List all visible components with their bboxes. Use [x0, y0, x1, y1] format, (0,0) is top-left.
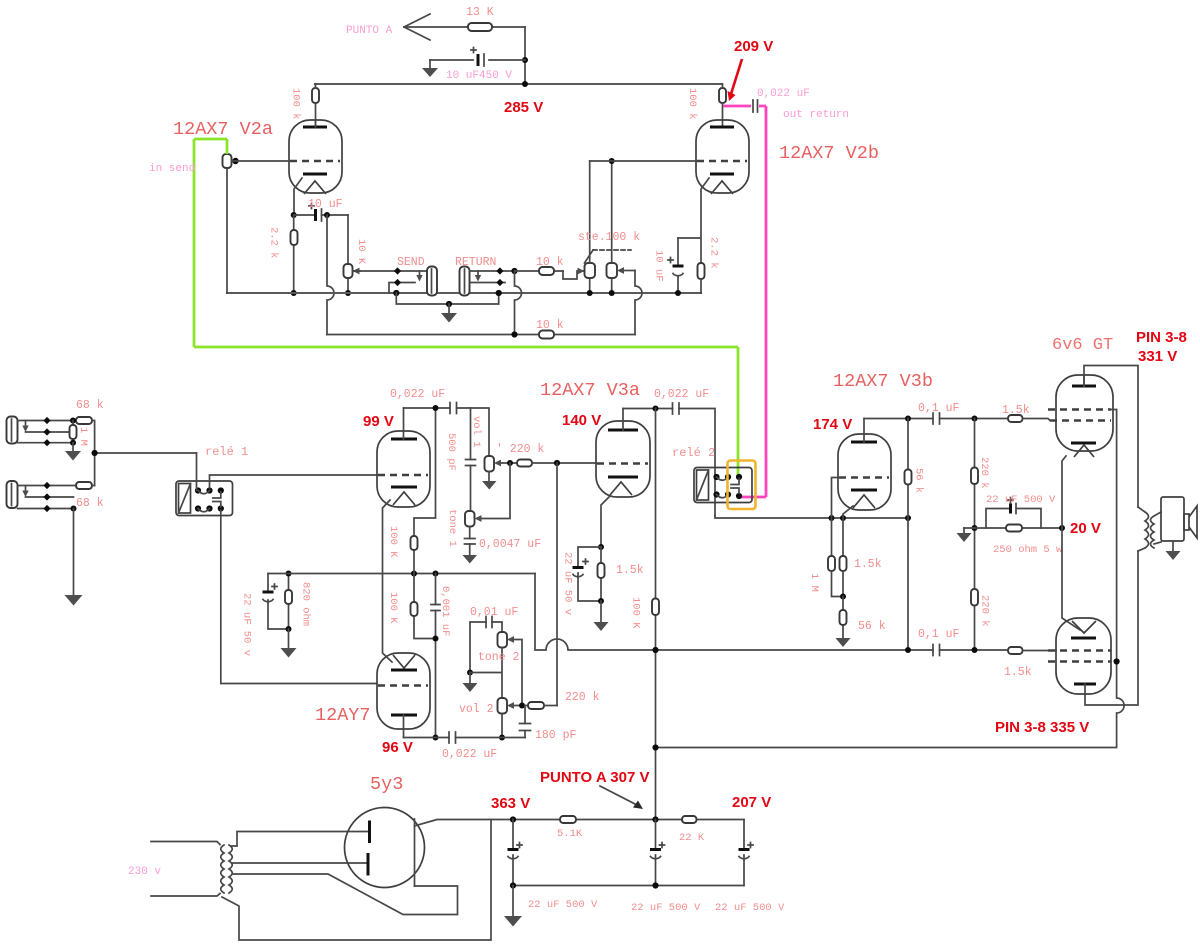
resistor 100K lower: [387, 592, 418, 624]
svg-text:22 uF 500 V: 22 uF 500 V: [528, 899, 598, 911]
wire with hop over cathode rail: [327, 215, 334, 335]
jack input 1: [7, 417, 77, 447]
node: [840, 594, 846, 600]
node 209V label with arrow: [728, 38, 774, 101]
transformer OT secondary: [1151, 512, 1162, 548]
svg-text:209 V: 209 V: [734, 38, 773, 55]
resistor 68k input1: [76, 399, 104, 424]
node: [433, 636, 439, 642]
resistor 250 ohm 5w: [993, 525, 1063, 557]
resistor 5.1K: [557, 816, 583, 840]
resistor 22K: [679, 816, 705, 844]
svg-text:56 k: 56 k: [913, 468, 925, 493]
svg-text:10 K: 10 K: [355, 239, 367, 265]
svg-text:1.5k: 1.5k: [1002, 404, 1030, 417]
svg-text:1.5k: 1.5k: [616, 564, 644, 577]
svg-text:13 K: 13 K: [466, 6, 494, 19]
tube 12AX7 V3a: [540, 380, 650, 497]
svg-text:12AX7 V3a: 12AX7 V3a: [540, 380, 640, 401]
svg-text:22 uF 500 V: 22 uF 500 V: [715, 902, 785, 914]
speaker: [1161, 497, 1197, 560]
svg-text:out return: out return: [783, 109, 849, 121]
resistor 220k ch2 mix: [528, 691, 600, 709]
node punto A: [652, 816, 658, 822]
svg-text:0,01 uF: 0,01 uF: [470, 606, 518, 619]
capacitor 10uF V2b cathode: [653, 238, 684, 293]
node: [411, 571, 417, 577]
tube 12AX7 V3b: [813, 371, 933, 510]
ground input2: [65, 509, 83, 606]
svg-text:5.1K: 5.1K: [557, 828, 583, 840]
svg-text:0,001 uF: 0,001 uF: [439, 586, 451, 636]
potentiometer 10k send level: [344, 215, 368, 293]
resistor 68k input2: [76, 482, 104, 510]
node PUNTO A (arrow to Punto A): [346, 14, 430, 40]
resistor 56k feedback: [905, 419, 925, 651]
ground: [957, 528, 972, 542]
wire cathode V1a: [383, 500, 393, 662]
svg-text:PUNTO A: PUNTO A: [346, 25, 393, 37]
ground main: [504, 886, 522, 927]
tube 6V6 upper: [1048, 336, 1113, 457]
capacitor 0.022uF out coupling: [753, 88, 849, 121]
node return tip junction: [511, 268, 517, 274]
node: [507, 460, 513, 466]
resistor 1.5k V3b: [840, 556, 882, 597]
svg-text:10 uF450 V: 10 uF450 V: [446, 70, 512, 82]
capacitor 22uF 500V no2: [631, 820, 701, 915]
wire relay1 in: [196, 453, 198, 490]
svg-text:207 V: 207 V: [732, 794, 771, 811]
svg-text:363 V: 363 V: [491, 795, 530, 812]
potentiometer tone1: [446, 463, 510, 547]
svg-text:2.2 k: 2.2 k: [268, 227, 280, 259]
svg-text:0,022 uF: 0,022 uF: [757, 88, 810, 100]
resistor 10k mix: [536, 319, 564, 339]
resistor 220k lower bias: [971, 528, 991, 650]
svg-text:100 K: 100 K: [387, 592, 399, 624]
wire: [524, 27, 526, 84]
transformer OT primary: [1138, 507, 1149, 551]
node: [652, 647, 658, 653]
node: [972, 525, 978, 531]
ground: [463, 673, 478, 693]
svg-text:0,1 uF: 0,1 uF: [918, 402, 960, 415]
tube 12AX7 V2a: [173, 119, 342, 194]
wire upper cathode: [1062, 456, 1066, 528]
svg-text:230 v: 230 v: [128, 866, 161, 878]
node: [905, 647, 911, 653]
svg-text:10 k: 10 k: [536, 256, 564, 269]
wire grid V2b: [590, 160, 697, 162]
node: [510, 882, 516, 888]
svg-text:tone 1: tone 1: [446, 509, 458, 547]
svg-text:68 k: 68 k: [76, 399, 104, 412]
node: [70, 440, 76, 446]
wire relay1 out to V1a grid: [210, 475, 378, 488]
node: [92, 450, 98, 456]
node: [511, 331, 517, 337]
capacitor 180pF: [520, 706, 577, 743]
wire wiper riser with hop: [635, 271, 642, 335]
svg-text:220 k: 220 k: [979, 595, 991, 627]
capacitor 0.1uF lower: [918, 628, 1008, 656]
svg-text:285 V: 285 V: [504, 99, 543, 116]
wire relay1 out to V1b grid: [221, 510, 377, 684]
wire HV CT loop: [222, 820, 491, 941]
resistor 1.5k upper grid: [1002, 404, 1056, 422]
resistor 220k ch1 mix: [496, 443, 544, 467]
svg-text:6v6 GT: 6v6 GT: [1052, 336, 1113, 355]
svg-text:56 k: 56 k: [858, 620, 886, 633]
capacitor 0.001uF: [431, 574, 451, 738]
ground: [65, 443, 81, 461]
svg-text:2.2 k: 2.2 k: [708, 237, 720, 269]
ground: [422, 60, 438, 77]
node: [653, 406, 659, 412]
svg-text:1 M: 1 M: [808, 573, 820, 592]
wire mix line to V3a grid: [532, 462, 596, 464]
resistor 820 ohm cathode: [285, 574, 312, 630]
svg-text:vol 2: vol 2: [459, 703, 494, 716]
svg-text:500 pF: 500 pF: [445, 433, 457, 471]
wire NFB tap: [414, 408, 436, 639]
wire green in-send: [194, 139, 738, 476]
node: [598, 544, 604, 550]
wire wiper jog to pot: [563, 271, 584, 279]
wire mains 230v: [128, 842, 220, 897]
transformer PT primary: [221, 845, 224, 893]
relay rele1: [176, 445, 248, 516]
svg-text:22 uF 50 v: 22 uF 50 v: [562, 552, 574, 615]
wire V3b plate line: [864, 418, 1008, 420]
tube 12AX7 V2b: [696, 120, 879, 194]
svg-text:PUNTO A 307 V: PUNTO A 307 V: [540, 769, 649, 786]
wire ground bus: [513, 885, 744, 887]
node dots on cathode rail: [587, 290, 593, 296]
wire cathode V3a: [601, 496, 610, 547]
svg-text:PIN 3-8: PIN 3-8: [1136, 329, 1187, 346]
svg-text:68 k: 68 k: [76, 497, 104, 510]
wire filament to B+: [415, 820, 745, 827]
wire: [430, 59, 525, 61]
wire cathode line corner and hop: [535, 574, 933, 651]
wire grid V3b: [832, 478, 840, 557]
node: [1059, 525, 1065, 531]
svg-text:820 ohm: 820 ohm: [300, 582, 312, 626]
tube 12AY7 V1a: [363, 408, 430, 507]
potentiometer tone2: [470, 632, 522, 706]
node: [70, 418, 76, 424]
node grid junction V2b: [609, 158, 615, 164]
jack input 2: [7, 481, 77, 512]
potentiometer ste.100k (dual) left: [578, 161, 640, 293]
svg-text:0,1 uF: 0,1 uF: [918, 628, 960, 641]
svg-text:0,022 uF: 0,022 uF: [654, 388, 709, 401]
wire V1b plate line: [404, 737, 526, 739]
resistor 1M V3b: [808, 556, 843, 597]
node: [905, 416, 911, 422]
wire lower plate to OT: [1085, 551, 1138, 705]
svg-text:220 k: 220 k: [978, 457, 990, 489]
capacitor 0.022uF ch1 coupling: [390, 388, 457, 414]
svg-text:0,022 uF: 0,022 uF: [390, 388, 445, 401]
node junction: [522, 57, 528, 63]
svg-text:PIN 3-8 335 V: PIN 3-8 335 V: [995, 719, 1089, 736]
svg-text:22 uF 500 V: 22 uF 500 V: [986, 494, 1056, 506]
wire screen rail: [656, 410, 1125, 748]
svg-text:SEND: SEND: [397, 256, 425, 269]
svg-text:174 V: 174 V: [813, 416, 852, 433]
svg-text:10 k: 10 k: [536, 319, 564, 332]
node: [345, 290, 351, 296]
capacitor 0.1uF upper: [918, 402, 960, 424]
wire cathode V3b: [843, 506, 853, 556]
wire mixing bus: [556, 463, 558, 706]
svg-text:in send: in send: [149, 163, 195, 175]
wire: [404, 26, 525, 28]
node 285V rail: [315, 81, 722, 116]
svg-text:12AX7 V2a: 12AX7 V2a: [173, 119, 273, 140]
node: [446, 301, 452, 307]
capacitor 22uF 500V no1: [508, 820, 599, 912]
resistor 100K upper: [387, 526, 418, 558]
node: [291, 290, 297, 296]
resistor 100k plate V2b: [686, 84, 726, 127]
svg-text:12AX7 V2b: 12AX7 V2b: [779, 143, 879, 164]
svg-text:220 k: 220 k: [565, 691, 600, 704]
svg-text:250 ohm 5 w: 250 ohm 5 w: [993, 544, 1063, 556]
svg-text:100 K: 100 K: [387, 526, 399, 558]
resistor 13K: [466, 6, 494, 31]
resistor 2.2k V2b: [698, 237, 720, 293]
resistor 100k plate V2a: [290, 84, 320, 127]
node labels PIN 3-8 331V: [1136, 329, 1187, 365]
wire feedback line: [715, 516, 908, 518]
wire upper plate to OT: [1084, 366, 1138, 508]
label PUNTO A 307V with arrow: [540, 769, 649, 809]
capacitor 500pF bright: [445, 408, 476, 511]
resistor 220k upper bias: [971, 419, 990, 529]
tube 12AY7 V1b (flipped): [315, 653, 430, 756]
wire hop over rail: [515, 271, 522, 335]
wire ground bus: [396, 293, 498, 304]
resistor 1.5k lower grid: [1004, 647, 1056, 679]
svg-text:22 uF 500 V: 22 uF 500 V: [631, 902, 701, 914]
svg-text:0,0047 uF: 0,0047 uF: [479, 538, 541, 551]
node: [433, 405, 439, 411]
node: [286, 571, 292, 577]
wire cathode node line: [268, 573, 535, 575]
wire 5v loop: [233, 874, 458, 915]
svg-text:99 V: 99 V: [363, 413, 394, 430]
node: [496, 290, 502, 296]
capacitor 10uF 450V: [446, 48, 512, 83]
node 363V: [491, 795, 530, 823]
node: [467, 670, 473, 676]
transformer PT secondary: [229, 845, 232, 893]
wire V3a plate line: [623, 409, 715, 517]
capacitor 22uF 50v V3a: [562, 547, 602, 615]
node sleeve junction: [393, 290, 399, 296]
potentiometer grid trim V2a: [223, 154, 290, 293]
svg-text:5y3: 5y3: [370, 774, 403, 795]
svg-text:1 M: 1 M: [77, 427, 89, 446]
tube 5Y3: [345, 774, 425, 888]
tube 6V6 lower (flipped): [1048, 618, 1111, 694]
potentiometer vol1: [470, 416, 517, 490]
svg-text:1.5k: 1.5k: [854, 558, 882, 571]
svg-text:relé 2: relé 2: [672, 446, 715, 460]
svg-text:22 K: 22 K: [679, 832, 705, 844]
ground: [836, 638, 851, 647]
node: [291, 212, 297, 218]
capacitor 22uF 500V bypass: [986, 494, 1056, 528]
resistor 56k tail: [840, 597, 886, 639]
node: [598, 598, 604, 604]
capacitor 22uF 50v cathode: [241, 574, 289, 657]
svg-text:12AY7: 12AY7: [315, 705, 371, 726]
wire cathode rail: [227, 292, 701, 294]
svg-text:10 uF: 10 uF: [653, 250, 665, 282]
svg-text:100 k: 100 k: [290, 88, 302, 120]
wire cathode V2a: [294, 178, 302, 215]
svg-text:1.5k: 1.5k: [1004, 666, 1032, 679]
resistor 10k return series: [515, 256, 564, 275]
capacitor 0.0047uF: [463, 527, 542, 564]
wire lower mix line: [327, 334, 635, 336]
resistor 1.5k V3a cathode: [598, 547, 644, 601]
node: [675, 290, 681, 296]
svg-text:140 V: 140 V: [562, 412, 601, 429]
wire gang dashed link: [585, 250, 594, 263]
wire V1a plate line: [404, 408, 490, 456]
wire magenta out-return: [723, 106, 766, 497]
ground: [281, 629, 297, 658]
node: [519, 703, 525, 709]
capacitor 0.022uF V3a out: [654, 388, 709, 414]
svg-text:tone 2: tone 2: [478, 651, 520, 664]
wire cathode V2b: [678, 178, 709, 263]
wire lower cathode: [1062, 528, 1080, 630]
jack RETURN: [455, 256, 515, 296]
svg-text:0,022 uF: 0,022 uF: [442, 748, 497, 761]
capacitor 22uF 500V no3: [715, 843, 785, 915]
svg-text:relé 1: relé 1: [205, 445, 248, 459]
svg-text:96 V: 96 V: [382, 739, 413, 756]
svg-text:22 uF 50 v: 22 uF 50 v: [241, 593, 253, 656]
svg-text:ste.100 k: ste.100 k: [578, 231, 640, 244]
capacitor 0.01uF tone2: [470, 606, 518, 673]
svg-text:331 V: 331 V: [1138, 348, 1177, 365]
wire B+ corner: [743, 820, 745, 886]
potentiometer ste.100k (dual) right: [607, 161, 636, 293]
wire HV lead mid: [232, 862, 366, 864]
svg-text:180 pF: 180 pF: [535, 729, 577, 742]
ground: [594, 601, 609, 631]
svg-text:12AX7 V3b: 12AX7 V3b: [833, 371, 933, 392]
ground: [441, 304, 457, 323]
svg-text:10 uF: 10 uF: [308, 198, 343, 211]
svg-text:′ 220 k: ′ 220 k: [496, 443, 544, 456]
svg-text:vol 1: vol 1: [470, 416, 482, 448]
capacitor 10uF V2a cathode: [294, 198, 348, 221]
node: [652, 744, 658, 750]
svg-text:100 k: 100 k: [686, 88, 698, 120]
potentiometer vol2: [459, 698, 528, 738]
wire cathode bias line: [964, 527, 1062, 529]
node junction: [324, 212, 330, 218]
node: [71, 506, 77, 512]
resistor 1M grid: [70, 421, 90, 446]
jack SEND: [353, 256, 438, 296]
relay rele2: [672, 446, 752, 503]
svg-text:20 V: 20 V: [1070, 520, 1101, 537]
wire to relay: [92, 421, 197, 486]
node yellow highlight box: [728, 461, 756, 510]
node: [829, 515, 835, 521]
resistor 2.2k V2a: [268, 215, 298, 293]
resistor 100K V3a load: [630, 409, 660, 820]
wire HV lead top: [231, 832, 369, 847]
svg-text:100 K: 100 K: [630, 597, 642, 629]
capacitor 0.022uF ch2 coupling: [442, 732, 497, 761]
